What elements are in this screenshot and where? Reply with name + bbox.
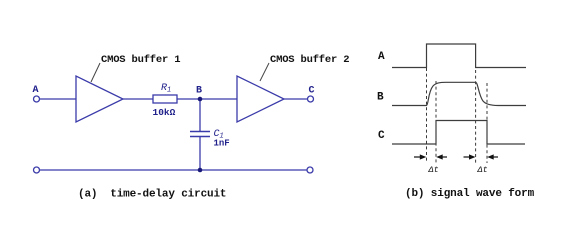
svg-text:(a) time-delay circuit: (a) time-delay circuit <box>78 189 226 201</box>
svg-text:CMOS buffer 2: CMOS buffer 2 <box>270 54 349 66</box>
svg-text:A: A <box>33 85 39 96</box>
svg-text:R1: R1 <box>161 83 171 95</box>
svg-text:Δt: Δt <box>428 165 439 175</box>
svg-text:B: B <box>377 92 384 104</box>
svg-text:C: C <box>378 130 385 142</box>
svg-text:(b) signal wave form: (b) signal wave form <box>405 188 535 200</box>
svg-text:A: A <box>378 51 385 63</box>
svg-text:CMOS buffer 1: CMOS buffer 1 <box>101 54 180 66</box>
svg-text:B: B <box>196 86 202 97</box>
svg-text:10kΩ: 10kΩ <box>153 107 176 118</box>
svg-text:1nF: 1nF <box>214 139 230 149</box>
svg-text:C: C <box>309 86 315 97</box>
svg-text:Δt: Δt <box>477 165 488 175</box>
